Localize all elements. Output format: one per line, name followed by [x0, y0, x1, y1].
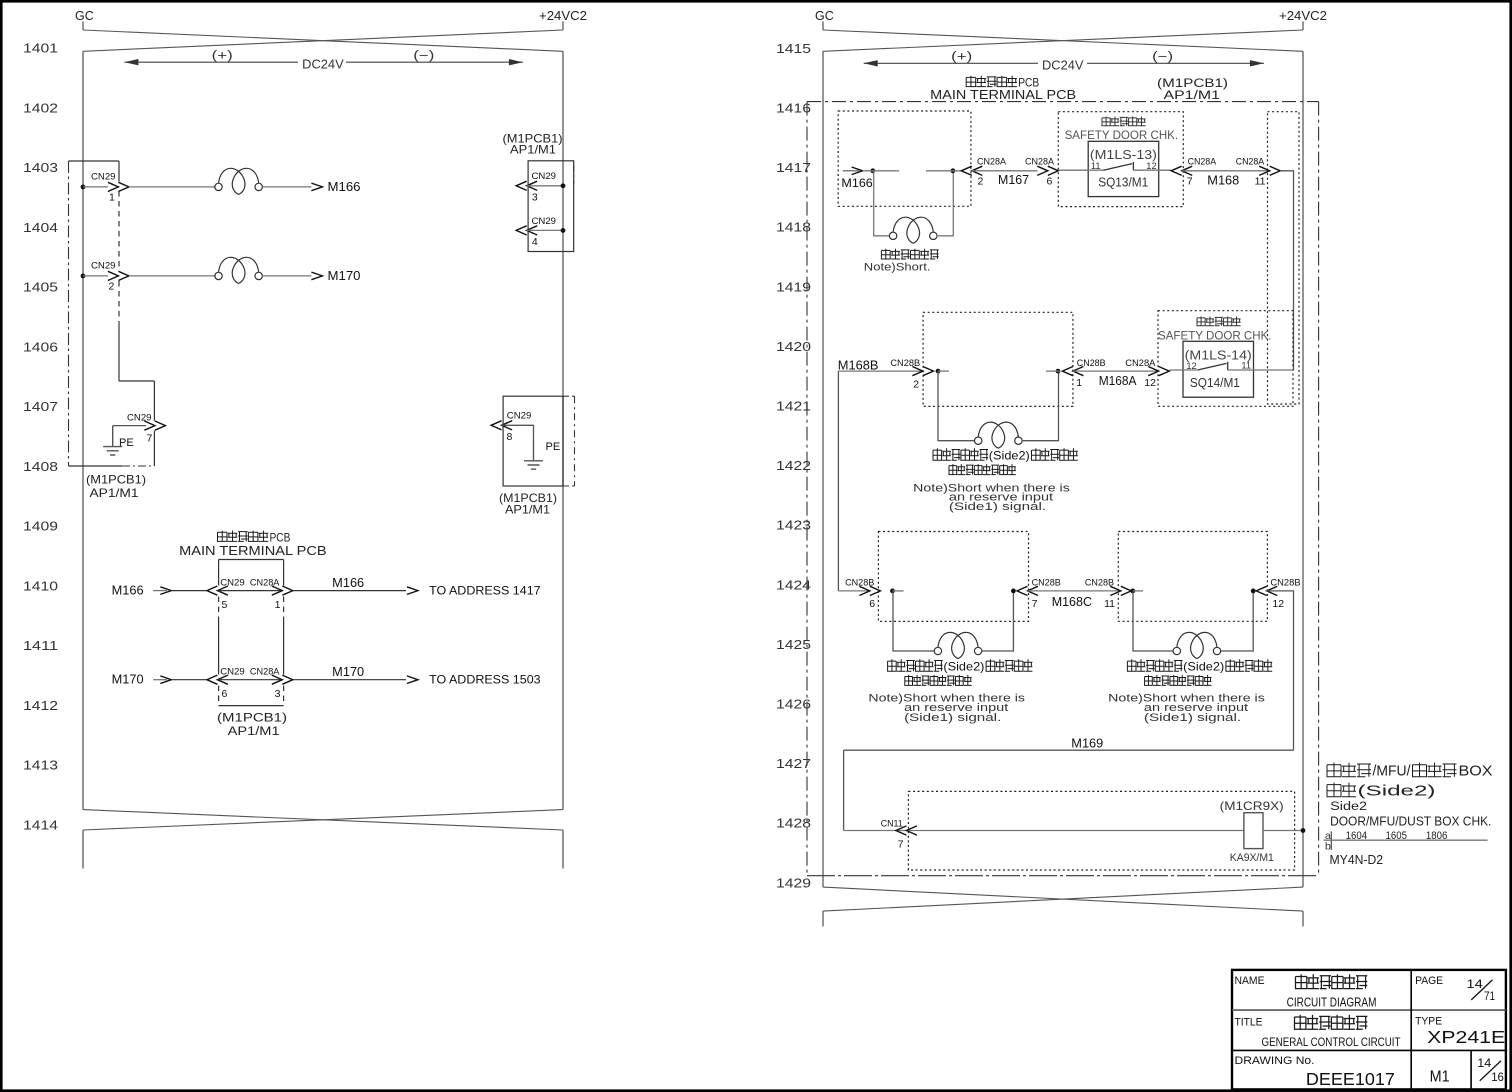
wire out of SQ14 switch — [1228, 369, 1294, 371]
svg-text:GC: GC — [75, 9, 94, 23]
wire arrow to CN29 connector (row 1412) — [171, 679, 207, 681]
svg-text:1426: 1426 — [776, 697, 811, 712]
wire right jumper drop (row 1424 A) — [981, 591, 1013, 651]
wire M166 incoming lead (row 1417) — [843, 170, 859, 172]
arrowhead DC24V left (left section) — [124, 59, 138, 65]
svg-text:1415: 1415 — [776, 41, 811, 56]
svg-text:(+): (+) — [951, 49, 972, 63]
svg-text:CN29: CN29 — [91, 261, 116, 272]
title Japanese general control circuit — [1295, 1015, 1368, 1029]
title Japanese circuit diagram — [1296, 974, 1368, 988]
wire bus crossover top-right diagonal A — [823, 30, 1303, 51]
wire +24VC2 rail bottom stub (right section) — [1302, 911, 1304, 926]
wire CN11 row to relay coil — [844, 830, 1244, 832]
svg-text:M170: M170 — [328, 268, 361, 283]
wire CN29 pin2 to twist symbol — [129, 275, 216, 277]
wire across mid box CN29/5 to CN28A/1 — [218, 590, 283, 592]
svg-text:CN28A: CN28A — [1025, 157, 1055, 168]
jumper option box (dotted) row 1424 group B — [1118, 532, 1267, 622]
wire GC stub (left section) — [82, 22, 84, 31]
svg-text:M169: M169 — [1071, 737, 1103, 751]
mid connector box left edge dashed seg2 — [218, 686, 220, 706]
connector CN29 edge dashed below pin2 — [118, 281, 120, 321]
junction node right of jumper row 1420 — [1056, 369, 1061, 374]
svg-text:7: 7 — [898, 838, 904, 850]
wire junction stub left (row 1424 B) — [1133, 590, 1143, 592]
ground symbol PE (left CN29 block) — [103, 426, 122, 455]
connector CN28A pin 12 chevrons — [1148, 367, 1169, 376]
svg-text:6: 6 — [869, 598, 875, 610]
svg-text:1427: 1427 — [776, 756, 811, 771]
switch SQ14 contact tick — [1227, 362, 1229, 370]
junction node right of jumper row 1424 group A — [1011, 589, 1016, 594]
svg-text:CIRCUIT DIAGRAM: CIRCUIT DIAGRAM — [1287, 994, 1377, 1009]
svg-text:M167: M167 — [998, 173, 1029, 187]
wire bus crossover bottom-left diagonal B — [83, 810, 563, 830]
arrowhead DC24V left (right section) — [864, 60, 878, 66]
wire twist symbol to M166 arrow — [261, 186, 311, 188]
svg-text:AP1/M1: AP1/M1 — [1164, 88, 1221, 102]
wire junction stub left (row 1417) — [863, 170, 900, 172]
svg-text:1411: 1411 — [23, 638, 58, 653]
wire GC rail (left section) — [82, 51, 84, 809]
svg-text:+24VC2: +24VC2 — [1279, 9, 1327, 23]
connector CN29 pin 5 chevrons (mid box) — [207, 586, 228, 595]
connector CN29 edge step horizontal — [119, 380, 154, 382]
connector CN29 pin 2 chevrons — [108, 271, 129, 280]
connector CN29 edge solid below pin2 — [118, 321, 120, 381]
PCB boundary dash-dot bottom edge (right section) — [807, 875, 1319, 877]
wire right jumper drop (row 1420) — [1022, 371, 1059, 441]
connector CN29 block bottom edge — [69, 465, 123, 467]
mid connector box left edge seg1 — [218, 560, 220, 586]
svg-text:(−): (−) — [413, 49, 434, 63]
svg-text:11: 11 — [1091, 161, 1101, 171]
wire M168C (row 1424) — [1028, 590, 1121, 592]
svg-text:1416: 1416 — [776, 101, 811, 116]
svg-text:CN29: CN29 — [220, 578, 245, 589]
svg-text:(Side1) signal.: (Side1) signal. — [904, 712, 1001, 724]
wire DC24V dimension line right half (right section) — [1087, 62, 1264, 64]
arrow to M166 destination — [311, 183, 322, 191]
note Japanese reserve-input part2 (row 1425 B) — [1226, 659, 1272, 671]
junction node left of jumper row 1417 — [870, 168, 875, 173]
PCB boundary dash-dot right edge (right section) — [1318, 102, 1320, 876]
svg-text:M166: M166 — [841, 176, 873, 190]
svg-text:3: 3 — [275, 688, 281, 700]
relay coil KA9X/M1 — [1244, 813, 1263, 849]
label main relay PCB Japanese (left mid) — [218, 531, 269, 542]
svg-text:1420: 1420 — [776, 339, 811, 354]
PCB boundary dash-dot left edge (right section) — [806, 102, 808, 876]
svg-text:1403: 1403 — [23, 160, 58, 175]
wire left jumper drop (row 1424 A) — [893, 591, 935, 651]
wire CN29 pin1 to twist symbol — [129, 186, 216, 188]
mid connector box left edge seg2 — [218, 620, 220, 675]
svg-text:PAGE: PAGE — [1415, 975, 1443, 987]
svg-text:+24VC2: +24VC2 — [539, 9, 587, 23]
junction node left of jumper row 1420 — [936, 369, 941, 374]
twisted-pair jumper symbol row 1424 group B — [1173, 632, 1221, 658]
svg-text:(−): (−) — [1152, 49, 1173, 63]
mid connector box right edge seg1 — [283, 560, 285, 586]
svg-text:1405: 1405 — [23, 280, 58, 295]
svg-text:(Side2): (Side2) — [1358, 783, 1436, 799]
wire GC stub (right section) — [822, 22, 824, 31]
page fraction slash (PAGE) — [1471, 980, 1492, 1000]
junction on GC rail at CN29 pin 2 — [81, 274, 86, 279]
svg-text:CN28B: CN28B — [1085, 578, 1114, 589]
svg-text:CN11: CN11 — [881, 818, 903, 829]
svg-text:1: 1 — [275, 599, 281, 611]
svg-text:SAFETY DOOR CHK.: SAFETY DOOR CHK. — [1065, 128, 1179, 142]
svg-text:(Side2): (Side2) — [943, 659, 984, 673]
svg-text:2: 2 — [913, 379, 919, 391]
arrowhead DC24V right (left section) — [509, 59, 523, 65]
wire bus crossover top-left diagonal B — [83, 30, 563, 51]
svg-text:1419: 1419 — [776, 279, 811, 294]
svg-text:M168B: M168B — [838, 358, 879, 372]
switch SQ14 blade — [1198, 363, 1227, 370]
twisted-pair symbol on M166 wire — [215, 168, 263, 194]
svg-text:M168C: M168C — [1052, 595, 1092, 609]
note Japanese short-circuit (row 1425 B) — [1145, 675, 1212, 686]
wire M168 (row 1417) — [1182, 170, 1270, 172]
svg-text:M170: M170 — [112, 671, 144, 686]
connector CN28A pin 2 chevrons — [961, 166, 982, 175]
svg-text:DC24V: DC24V — [1042, 57, 1084, 72]
wire DC24V dimension line right half (left section) — [346, 61, 523, 63]
wire bus crossover bottom-left diagonal A — [83, 810, 563, 830]
svg-text:1421: 1421 — [776, 399, 811, 414]
title block divider row2/row3 — [1232, 1049, 1506, 1051]
twisted-pair jumper symbol row 1424 group A — [934, 632, 982, 658]
svg-text:16: 16 — [1491, 1072, 1504, 1084]
svg-text:CN28A: CN28A — [250, 667, 280, 678]
wire left jumper drop (row 1417) — [874, 171, 890, 236]
connector CN28B pin 12 chevrons — [1256, 586, 1277, 595]
PCB boundary dash-dot left edge of CN29 block — [68, 161, 70, 466]
jumper option box (dotted) row 1417 — [838, 111, 971, 206]
svg-text:11: 11 — [1255, 175, 1266, 187]
connector CN28A pin 11 chevrons — [1259, 166, 1280, 175]
junction on +24VC2 rail at relay — [1301, 828, 1306, 833]
dash-dot extension bottom of PE block — [563, 485, 575, 487]
svg-text:/MFU/: /MFU/ — [1373, 763, 1412, 779]
svg-text:5: 5 — [222, 599, 228, 611]
junction node left of jumper row 1424 group A — [890, 589, 895, 594]
junction on +24VC2 rail at CN29 pin 3 — [561, 183, 566, 188]
wire bus crossover bottom-right diagonal B — [823, 887, 1303, 911]
wire relay coil to +24VC2 rail — [1263, 830, 1303, 832]
svg-text:1423: 1423 — [776, 518, 811, 533]
wire row 1424 to vertical link down — [1267, 591, 1294, 750]
caption safety door Japanese line1 part1 — [1327, 763, 1371, 777]
svg-text:1401: 1401 — [23, 41, 58, 56]
svg-text:DOOR/MFU/DUST BOX CHK.: DOOR/MFU/DUST BOX CHK. — [1330, 814, 1491, 829]
svg-text:1: 1 — [109, 192, 115, 204]
svg-text:GENERAL CONTROL CIRCUIT: GENERAL CONTROL CIRCUIT — [1262, 1035, 1401, 1049]
title block vertical divider small — [1470, 1050, 1472, 1089]
connector CN28A pin 3 chevrons (mid box) — [272, 675, 293, 684]
connector CN28A pin 1 chevrons (mid box) — [272, 586, 293, 595]
safety switch SQ13 dotted enclosure — [1058, 112, 1183, 207]
svg-text:M168: M168 — [1207, 173, 1239, 187]
svg-text:Note)Short.: Note)Short. — [864, 262, 931, 274]
svg-text:M166: M166 — [332, 576, 364, 590]
svg-text:AP1/M1: AP1/M1 — [510, 143, 556, 157]
note Japanese short-circuit (row 1422) — [949, 464, 1016, 475]
svg-text:6: 6 — [222, 688, 228, 700]
label safety door check Japanese (SQ14) — [1197, 317, 1241, 326]
wire +24VC2 stub (right section) — [1302, 22, 1304, 31]
svg-text:7: 7 — [147, 433, 153, 445]
arrow outgoing M166 — [407, 587, 418, 595]
svg-text:1402: 1402 — [23, 100, 58, 115]
connector CN29 pin 3 chevrons — [516, 181, 537, 190]
wire M169 horizontal — [844, 749, 1294, 751]
connector CN28B pin 11 chevrons — [1110, 586, 1131, 595]
connector CN29 pin 6 chevrons (mid box) — [207, 675, 228, 684]
arrow incoming M166 — [160, 587, 171, 595]
svg-text:(Side2): (Side2) — [989, 448, 1030, 462]
svg-text:AP1/M1: AP1/M1 — [90, 486, 139, 500]
arrow to M170 destination — [311, 272, 322, 280]
arrow incoming M170 — [160, 676, 171, 684]
connector CN28A pin 7 chevrons — [1171, 166, 1192, 175]
svg-text:(Side1) signal.: (Side1) signal. — [1144, 712, 1241, 724]
page fraction slash (sheet) — [1480, 1061, 1501, 1081]
note Japanese reserve-input part2 (row 1425 A) — [986, 659, 1032, 671]
svg-text:KA9X/M1: KA9X/M1 — [1230, 852, 1274, 864]
wire arrow to CN29 connector (row 1410) — [171, 590, 207, 592]
jumper option box (dotted) row 1424 group A — [878, 532, 1028, 622]
svg-text:1408: 1408 — [23, 459, 58, 474]
safety switch SQ14 dotted enclosure — [1158, 311, 1293, 407]
mid connector box right edge dashed seg2 — [283, 686, 285, 706]
note Japanese reserve-input part1 (row 1421) — [933, 448, 988, 460]
svg-text:(M1PCB1): (M1PCB1) — [217, 710, 287, 724]
wire CN29 pin 4 to +24VC2 rail — [527, 229, 563, 231]
svg-text:2: 2 — [978, 175, 984, 187]
svg-text:b: b — [1325, 841, 1331, 853]
svg-text:(M1CR9X): (M1CR9X) — [1220, 799, 1284, 813]
wire +24VC2 stub (left section) — [562, 22, 564, 31]
limit switch M1LS-14 box — [1183, 341, 1254, 397]
label safety door check Japanese (SQ13) — [1102, 117, 1146, 126]
PCB boundary dash-dot top edge (right section) — [807, 101, 1319, 103]
svg-text:(M1PCB1): (M1PCB1) — [86, 473, 146, 487]
svg-text:1422: 1422 — [776, 458, 811, 473]
svg-text:1417: 1417 — [776, 160, 811, 175]
twisted-pair jumper symbol row 1417 — [889, 217, 937, 243]
PCB boundary dash-dot right of CN29 pins3-4 — [573, 165, 575, 184]
svg-text:TO ADDRESS 1503: TO ADDRESS 1503 — [429, 673, 541, 687]
note Japanese reserve-input part1 (row 1425 B) — [1127, 659, 1182, 671]
connector CN28B pin 2 chevrons — [912, 367, 933, 376]
svg-text:1406: 1406 — [23, 339, 58, 354]
svg-text:1413: 1413 — [23, 758, 58, 773]
connector CN29 PE block outline (right) — [503, 396, 563, 486]
svg-text:CN29: CN29 — [532, 171, 557, 182]
junction on GC rail at CN29 pin 1 — [81, 185, 86, 190]
wire across mid box CN29/6 to CN28A/3 — [218, 679, 283, 681]
svg-text:M166: M166 — [328, 179, 361, 194]
svg-text:1414: 1414 — [23, 817, 58, 832]
wire right jumper drop (row 1424 B) — [1220, 591, 1253, 651]
wire junction stub left (row 1420) — [938, 370, 949, 372]
svg-text:3: 3 — [532, 192, 538, 204]
svg-text:1: 1 — [1076, 377, 1082, 389]
svg-text:MY4N-D2: MY4N-D2 — [1330, 852, 1384, 867]
svg-text:CN29: CN29 — [91, 172, 116, 183]
svg-text:DRAWING No.: DRAWING No. — [1235, 1055, 1315, 1067]
svg-text:6: 6 — [1047, 175, 1053, 187]
svg-text:4: 4 — [532, 236, 538, 248]
wire junction stub right (row 1420) — [1046, 370, 1060, 372]
svg-text:CN29: CN29 — [507, 410, 532, 421]
svg-text:MAIN TERMINAL PCB: MAIN TERMINAL PCB — [930, 87, 1076, 102]
wire M168B vertical link to row 1424 — [837, 371, 839, 591]
svg-text:1429: 1429 — [776, 875, 811, 890]
wire GC rail bottom stub (left section) — [82, 830, 84, 869]
connector CN29 pin 8 chevrons — [491, 421, 512, 430]
wire CN29 pin 8 to ground — [502, 425, 534, 440]
svg-text:BOX: BOX — [1459, 763, 1493, 779]
svg-text:1428: 1428 — [776, 816, 811, 831]
wire into CN28B pin 6 — [838, 590, 869, 592]
svg-text:1418: 1418 — [776, 220, 811, 235]
svg-text:CN29: CN29 — [220, 667, 245, 678]
reference tick a-b — [1330, 831, 1332, 850]
svg-text:SAFETY DOOR CHK.: SAFETY DOOR CHK. — [1158, 328, 1272, 342]
connector CN29 edge right segment below pin 7 — [153, 431, 155, 467]
limit switch M1LS-13 box — [1088, 141, 1159, 196]
svg-text:XP241E: XP241E — [1427, 1027, 1505, 1047]
svg-text:71: 71 — [1484, 991, 1495, 1003]
connector CN29 block bottom edge dash-dot part — [122, 465, 154, 467]
svg-text:1412: 1412 — [23, 698, 58, 713]
wire twist symbol to M170 arrow — [261, 275, 311, 277]
connector CN29 pin 7 chevrons — [144, 421, 165, 430]
connector CN28B pin 6 chevrons — [859, 586, 880, 595]
svg-text:M1: M1 — [1430, 1069, 1450, 1086]
svg-text:1425: 1425 — [776, 637, 811, 652]
wire M167 (row 1417) — [972, 170, 1038, 172]
dash-dot extension right of PE block — [574, 396, 576, 486]
arrow incoming M166 (row 1417) — [852, 167, 863, 175]
svg-text:SQ13/M1: SQ13/M1 — [1098, 174, 1148, 189]
svg-text:MAIN TERMINAL PCB: MAIN TERMINAL PCB — [179, 543, 327, 558]
mid connector box left edge dashed seg — [218, 597, 220, 621]
wire row 1417 down to SQ14 — [1280, 171, 1293, 370]
wire +24VC2 rail (right section) — [1302, 51, 1304, 887]
title block outer frame — [1232, 970, 1506, 1090]
title block vertical divider main — [1410, 970, 1412, 1090]
svg-text:(Side2): (Side2) — [1183, 659, 1224, 673]
connector CN28A pin 6 chevrons — [1037, 166, 1058, 175]
junction node right of jumper row 1417 — [951, 168, 956, 173]
svg-text:AP1/M1: AP1/M1 — [228, 724, 280, 738]
svg-text:7: 7 — [1032, 598, 1038, 610]
jumper option box (dotted) row 1420 — [923, 312, 1073, 406]
svg-text:GC: GC — [815, 9, 834, 23]
connector CN28A dotted strip (right) — [1268, 112, 1300, 404]
connector CN29 edge right segment above pin 7 — [153, 381, 155, 421]
svg-text:CN28B: CN28B — [845, 578, 874, 589]
svg-text:SQ14/M1: SQ14/M1 — [1190, 375, 1240, 390]
svg-text:12: 12 — [1146, 161, 1156, 171]
svg-text:CN28B: CN28B — [890, 358, 920, 369]
svg-text:14: 14 — [1477, 1058, 1492, 1070]
wire junction stub right (row 1417) — [926, 170, 961, 172]
wire CN29 pin 3 to +24VC2 rail — [527, 185, 563, 187]
junction on +24VC2 rail at CN29 pin 4 — [561, 228, 566, 233]
svg-text:DC24V: DC24V — [302, 56, 344, 71]
wire junction stub left (row 1424 A) — [893, 590, 904, 592]
twisted-pair symbol on M170 wire — [215, 257, 263, 283]
caption confirm Japanese line2 — [1327, 783, 1356, 797]
arrowhead DC24V right (right section) — [1250, 60, 1264, 66]
dash-dot extension top of PE block — [563, 395, 575, 397]
wire M170 incoming lead — [153, 679, 167, 681]
connector CN11 pin 7 chevrons — [896, 826, 917, 835]
svg-text:CN28B: CN28B — [1032, 578, 1061, 589]
svg-text:CN28B: CN28B — [1270, 578, 1300, 589]
svg-text:M168A: M168A — [1099, 374, 1137, 388]
svg-text:12: 12 — [1144, 377, 1156, 389]
svg-text:TYPE: TYPE — [1415, 1015, 1442, 1027]
wire GC rail to CN29 pin 2 — [83, 275, 108, 277]
svg-text:1424: 1424 — [776, 577, 811, 592]
wire GC rail (right section) — [822, 51, 824, 887]
wire left jumper drop (row 1424 B) — [1133, 591, 1174, 651]
wire bus crossover bottom-right diagonal A — [823, 887, 1303, 911]
wire M169 left vertical drop — [843, 750, 845, 830]
svg-text:TO ADDRESS 1417: TO ADDRESS 1417 — [429, 584, 541, 598]
connector CN29 edge dashed between pin1-pin2 — [118, 191, 120, 271]
connector CN28B pin 7 chevrons — [1017, 586, 1038, 595]
svg-text:CN28A: CN28A — [977, 157, 1007, 168]
svg-text:NAME: NAME — [1235, 975, 1265, 987]
connector CN29 block top edge — [69, 160, 120, 162]
mid connector box right edge seg2 — [283, 620, 285, 675]
wire M166 incoming lead — [153, 590, 167, 592]
note Japanese reserve-input part1 (row 1425 A) — [888, 659, 943, 671]
reference contact line a-b — [1324, 839, 1488, 841]
label main relay PCB Japanese (right header) — [966, 76, 1017, 87]
relay circuit dotted enclosure (M1CR9X) — [908, 791, 1294, 870]
wire right jumper drop (row 1417) — [936, 171, 953, 236]
wire into SQ13 switch — [1058, 169, 1103, 171]
svg-text:CN28B: CN28B — [1077, 358, 1106, 369]
arrow outgoing M170 — [407, 676, 418, 684]
wire PE to CN29 pin 7 — [113, 425, 146, 427]
svg-text:8: 8 — [507, 431, 513, 443]
svg-text:2: 2 — [109, 281, 115, 293]
svg-text:(Side1) signal.: (Side1) signal. — [949, 501, 1046, 513]
ground symbol PE (right block) — [524, 440, 543, 469]
wire M168B (row 1420) — [838, 370, 922, 372]
svg-text:12: 12 — [1272, 598, 1284, 610]
svg-text:1404: 1404 — [23, 220, 58, 235]
svg-text:14: 14 — [1466, 979, 1483, 991]
wire bus crossover top-right diagonal B — [823, 30, 1303, 51]
svg-text:1407: 1407 — [23, 399, 58, 414]
junction node right of jumper row 1424 group B — [1251, 589, 1256, 594]
mid connector box bottom edge — [219, 705, 284, 707]
wire DC24V dimension line left half (right section) — [864, 62, 1038, 64]
